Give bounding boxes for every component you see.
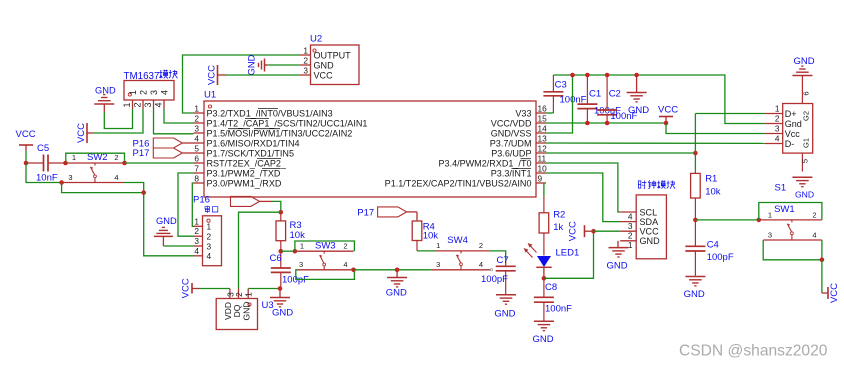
svg-text:DQ: DQ [232, 304, 242, 317]
svg-text:12: 12 [538, 144, 548, 154]
svg-text:C7: C7 [497, 255, 509, 266]
module TM1637 display connector [122, 70, 178, 109]
wire GND to serial pin3 [163, 245, 193, 247]
svg-text:3: 3 [68, 173, 72, 182]
svg-text:GND: GND [242, 302, 252, 321]
junction C2 bottom [605, 121, 610, 126]
ground on rail [627, 75, 650, 116]
wire U1 pin9 to R2 [543, 183, 545, 196]
svg-text:3: 3 [207, 241, 212, 251]
svg-text:1: 1 [300, 241, 304, 250]
ground below C8 [533, 321, 554, 345]
junction R1 bottom [693, 218, 698, 223]
svg-text:8: 8 [194, 174, 199, 184]
switch SW4 [432, 235, 493, 271]
svg-text:P3.4/PWM2/RXD1_/T0: P3.4/PWM2/RXD1_/T0 [438, 158, 531, 168]
wire VCC to U3 VDD [199, 288, 230, 290]
svg-text:VCC: VCC [568, 221, 579, 241]
svg-text:100nF: 100nF [545, 303, 572, 314]
svg-text:OUTPUT: OUTPUT [314, 50, 352, 60]
junction at SW2 pin1 [63, 161, 68, 166]
power VCC near U2 (rotated) [207, 65, 227, 85]
net flag P17 (lower) [357, 207, 417, 218]
net flag P17 (upper) [133, 148, 194, 159]
svg-text:4: 4 [628, 211, 633, 221]
svg-text:1: 1 [244, 292, 254, 297]
svg-text:2: 2 [775, 114, 780, 124]
svg-text:2: 2 [114, 153, 118, 162]
svg-text:1: 1 [207, 222, 212, 232]
svg-text:P16: P16 [193, 195, 210, 206]
junction LED cathode [542, 276, 547, 281]
svg-text:2: 2 [628, 231, 633, 241]
wire U1 pin8 to serial pin1 [192, 183, 193, 226]
capacitor C2 [597, 75, 637, 123]
junction VCC pin15 [664, 121, 669, 126]
svg-text:1: 1 [303, 46, 308, 56]
net flag P16 (upper) [133, 138, 194, 150]
svg-text:4: 4 [812, 230, 816, 239]
power VCC top-left [16, 129, 36, 151]
svg-text:2: 2 [132, 102, 142, 107]
svg-text:2: 2 [207, 232, 212, 242]
power VCC mid (rotated) [568, 221, 594, 241]
wire P16 node to U3 DQ [239, 212, 281, 288]
resistor R1 10k [691, 171, 721, 220]
svg-text:C6: C6 [270, 253, 282, 264]
junction SW2 bottom net [141, 190, 146, 195]
svg-text:1k: 1k [553, 222, 563, 233]
svg-text:P17: P17 [357, 207, 374, 218]
svg-text:4: 4 [207, 251, 212, 261]
svg-text:GND: GND [156, 216, 177, 226]
ground below C7 [494, 295, 516, 320]
junction UDP/D+/R1 [693, 151, 698, 156]
wire U1 pin11 to clock SCL [546, 163, 620, 212]
connector serial port (chuankou) [194, 206, 222, 266]
svg-text:3: 3 [628, 221, 633, 231]
svg-text:10: 10 [538, 164, 548, 174]
wire SW1 to VCC [821, 260, 823, 293]
junction P16/R3 node [279, 210, 284, 215]
svg-text:2: 2 [479, 241, 483, 250]
svg-text:3: 3 [303, 66, 308, 76]
svg-text:2: 2 [138, 90, 148, 95]
power VCC bottom-right (rotated) [822, 283, 840, 303]
net flag P16 (lower) [193, 195, 272, 207]
wire U1 GND/VSS pin14 to rail [546, 75, 573, 133]
capacitor C5 [26, 143, 66, 184]
svg-text:1: 1 [122, 102, 132, 107]
junction at SW2 pin3 [59, 180, 64, 185]
junction at C5 left [24, 161, 29, 166]
svg-text:4: 4 [153, 102, 163, 107]
capacitor C8 [534, 278, 572, 320]
svg-text:GND: GND [533, 334, 554, 345]
svg-text:TM1637: TM1637 [124, 71, 160, 82]
wire SW3 pin4 to GND junction [354, 269, 432, 271]
svg-text:3: 3 [143, 102, 153, 107]
svg-text:2: 2 [343, 241, 347, 250]
svg-text:13: 13 [538, 134, 548, 144]
svg-text:5: 5 [801, 159, 810, 163]
svg-text:P3.2/TXD1_/INT0/VBUS1/AIN3: P3.2/TXD1_/INT0/VBUS1/AIN3 [207, 108, 333, 118]
svg-text:GND: GND [607, 261, 628, 272]
svg-text:VCC: VCC [16, 129, 36, 140]
svg-text:SW4: SW4 [447, 235, 468, 246]
wire SW4 pin2 to C7 [490, 251, 506, 262]
switch SW2 [62, 152, 125, 183]
capacitor C6 [270, 251, 310, 288]
wire LED cathode node [543, 267, 545, 278]
svg-text:GND: GND [494, 309, 515, 320]
svg-text:4: 4 [479, 260, 483, 269]
svg-text:SW3: SW3 [315, 240, 336, 251]
connector U2 (OUTPUT/GND/VCC) [300, 34, 359, 85]
svg-text:P1.4/T2_/CAP1_/SCS/TIN2/UCC1/A: P1.4/T2_/CAP1_/SCS/TIN2/UCC1/AIN1 [207, 118, 368, 128]
svg-text:1: 1 [436, 241, 440, 250]
svg-text:10k: 10k [423, 230, 439, 241]
svg-text:3: 3 [775, 124, 780, 134]
ground USB bottom [792, 177, 814, 199]
capacitor C3 [543, 75, 586, 113]
svg-text:4: 4 [194, 246, 199, 256]
wire P17 to R4 [416, 212, 418, 221]
wire SW2 net to serial port pin4 [144, 193, 194, 256]
wire VCC node down to SW2 pin3 [26, 163, 62, 183]
wire TM1637 pin3 to U1 pin3 [154, 109, 194, 134]
svg-text:3: 3 [149, 90, 159, 95]
svg-text:CSDN @shansz2020: CSDN @shansz2020 [679, 343, 828, 360]
wire SW2 pin2 to U1 RST pin6 [125, 162, 194, 164]
wire SW1 bypass top [759, 203, 822, 220]
svg-text:C8: C8 [545, 282, 557, 293]
svg-text:VCC: VCC [640, 227, 660, 237]
svg-text:G2: G2 [802, 111, 811, 121]
wire TM1637 pin4 to U1 pin2 [164, 109, 194, 123]
svg-text:11: 11 [538, 154, 547, 164]
junction R3 bottom [279, 249, 284, 254]
svg-text:GND: GND [247, 54, 257, 75]
svg-text:GND: GND [795, 190, 814, 200]
svg-text:S1: S1 [775, 183, 787, 194]
resistor R3 10k [276, 212, 305, 251]
wire VCC to C5 node [25, 151, 27, 163]
svg-text:V33: V33 [515, 108, 531, 118]
ground serial port (flipped 4-bar) [154, 216, 177, 246]
svg-text:Gnd: Gnd [785, 119, 802, 129]
svg-text:3: 3 [194, 124, 199, 134]
svg-text:RST/T2EX_/CAP2_: RST/T2EX_/CAP2_ [207, 158, 287, 168]
svg-text:R3: R3 [290, 220, 302, 231]
svg-text:2: 2 [303, 56, 308, 66]
svg-text:C1: C1 [589, 89, 601, 100]
wire C3 to U1 V33 pin16 [546, 112, 553, 114]
svg-text:4: 4 [343, 260, 347, 269]
svg-text:2: 2 [194, 226, 199, 236]
capacitor C7 [481, 255, 516, 294]
power VCC mid-top [658, 105, 678, 124]
svg-text:1: 1 [194, 104, 199, 114]
wire U2 pin3 to VCC [226, 74, 300, 76]
switch SW3 [295, 240, 354, 269]
svg-text:100pF: 100pF [707, 252, 734, 263]
op-amp U1 microcontroller CH55x 16-pin [194, 90, 548, 198]
wire U2 pin2 to GND [267, 64, 300, 66]
svg-text:VCC/VDD: VCC/VDD [491, 118, 532, 128]
svg-text:14: 14 [538, 124, 548, 134]
wire LED node to VCC branch [544, 231, 594, 278]
svg-text:GND: GND [272, 308, 293, 319]
svg-text:GND: GND [794, 56, 815, 67]
wire USB D+ branch [695, 113, 764, 115]
svg-text:G1: G1 [802, 138, 811, 148]
wire R1 node to SW1 pin1 [695, 219, 758, 221]
junction SW3 pin4 [351, 268, 356, 273]
svg-text:4: 4 [775, 134, 780, 144]
ground TM1637 (flipped) [94, 86, 116, 113]
junction at SW2 pin2 [122, 161, 127, 166]
power VCC TM1637 (rotated) [76, 123, 94, 143]
svg-text:SW1: SW1 [774, 204, 795, 215]
power VCC near U3 (rotated) [181, 278, 200, 298]
wire SW2 pin3 bypass bottom [62, 183, 144, 193]
junction GND mid-bottom [395, 268, 400, 273]
junction SW1 pin1 [757, 218, 762, 223]
svg-text:VCC: VCC [207, 65, 218, 85]
svg-text:1: 1 [775, 104, 780, 114]
svg-text:3: 3 [768, 230, 772, 239]
wire GND top rail [553, 75, 764, 124]
watermark [679, 343, 828, 360]
svg-text:LED1: LED1 [556, 247, 580, 258]
junction VCC clock node [591, 229, 596, 234]
svg-text:4: 4 [114, 173, 118, 182]
svg-text:SCL: SCL [640, 207, 658, 217]
connector USB (D+/Gnd/Vcc/D-) [765, 104, 813, 154]
svg-text:D-: D- [785, 139, 795, 149]
svg-text:2: 2 [812, 210, 816, 219]
svg-text:VCC: VCC [76, 123, 87, 143]
svg-text:10k: 10k [705, 186, 721, 197]
svg-text:P3.3/INT1: P3.3/INT1 [491, 168, 532, 178]
svg-text:VCC: VCC [181, 278, 192, 298]
wire TM1637 pin1 to GND [104, 109, 132, 129]
switch SW1 [759, 204, 822, 240]
svg-text:P1.6/MISO/RXD1/TIN4: P1.6/MISO/RXD1/TIN4 [207, 138, 300, 148]
svg-text:16: 16 [538, 104, 548, 114]
junction rail C1 [585, 73, 590, 78]
svg-text:5: 5 [194, 144, 199, 154]
svg-text:3: 3 [194, 236, 199, 246]
wire U1 pin7 to serial pin2 [178, 173, 194, 236]
svg-text:P3.6/UDP: P3.6/UDP [491, 148, 531, 158]
svg-text:GND: GND [386, 288, 407, 299]
wire VCC node to clock VCC [594, 230, 621, 232]
ground clock module [607, 241, 629, 272]
svg-text:GND: GND [684, 289, 705, 300]
svg-text:P3.1/PWM2_/TXD: P3.1/PWM2_/TXD [207, 168, 281, 178]
capacitor C4 [685, 220, 733, 276]
svg-text:P1.7/SCK/TXD1/TIN5: P1.7/SCK/TXD1/TIN5 [207, 148, 294, 158]
svg-text:1: 1 [194, 216, 199, 226]
svg-text:P3.7/UDM: P3.7/UDM [490, 138, 532, 148]
svg-text:6: 6 [194, 154, 199, 164]
svg-text:1: 1 [628, 240, 633, 250]
wire P16 to R3 top [272, 201, 281, 212]
svg-text:GND: GND [628, 105, 649, 116]
svg-text:3: 3 [299, 260, 303, 269]
svg-text:2: 2 [234, 292, 244, 297]
wire SW1 bypass bottom [763, 240, 822, 260]
svg-text:VCC: VCC [829, 283, 840, 303]
svg-text:U2: U2 [310, 34, 322, 45]
svg-text:SDA: SDA [640, 217, 660, 227]
wire U3 GND to ground node [248, 288, 280, 290]
wire USB pin6 shield [802, 76, 811, 104]
svg-text:U1: U1 [204, 90, 216, 101]
wire R3 to SW3 pin1 [281, 250, 295, 252]
svg-text:D+: D+ [785, 109, 797, 119]
junction C1 bottom [585, 121, 590, 126]
resistor R4 10k [412, 221, 438, 251]
svg-text:R1: R1 [705, 173, 717, 184]
svg-text:100pF: 100pF [481, 274, 508, 285]
svg-text:7: 7 [194, 164, 199, 174]
svg-text:15: 15 [538, 114, 548, 124]
wire SW2 bypass top [66, 153, 125, 163]
svg-text:P17: P17 [133, 148, 150, 159]
wire VCC/VDD pin15 net [546, 122, 666, 124]
svg-text:1: 1 [128, 90, 138, 95]
wire VCC to USB Vcc [666, 123, 765, 134]
transistor U3 temperature sensor (VDD/DQ/GND) [216, 289, 273, 330]
module clock (shizhong) [620, 180, 675, 258]
wire TM1637 pin2 to VCC [94, 109, 143, 133]
wire SW2 pin4 link [124, 183, 144, 193]
svg-text:GND: GND [95, 86, 116, 96]
wire R4 to SW4 pin1 [417, 250, 436, 252]
junction U3 GND node [278, 286, 283, 291]
svg-text:C5: C5 [37, 143, 49, 154]
LED LED1 [524, 243, 580, 267]
svg-text:GND: GND [640, 236, 661, 246]
ground USB top (flipped) [792, 56, 814, 76]
svg-text:9: 9 [538, 174, 543, 184]
svg-text:4: 4 [159, 90, 169, 95]
svg-text:C2: C2 [609, 89, 621, 100]
svg-text:1: 1 [768, 210, 772, 219]
svg-text:P1.5/MOSI/PWM1/TIN3/UCC2/AIN2: P1.5/MOSI/PWM1/TIN3/UCC2/AIN2 [207, 128, 353, 138]
svg-text:4: 4 [194, 134, 199, 144]
wire SW3 bypass top [295, 241, 355, 251]
wire D+ vertical to R1 [694, 114, 696, 171]
junction SW3 pin1 [293, 249, 298, 254]
ground near U2 (rotated) [247, 54, 268, 75]
resistor R2 1k [539, 196, 565, 256]
svg-text:10k: 10k [290, 230, 306, 241]
svg-text:3: 3 [436, 260, 440, 269]
label S1 [775, 183, 787, 194]
wire SW3 bypass bottom [296, 270, 355, 280]
svg-text:6: 6 [802, 91, 811, 95]
ground mid-bottom [386, 270, 407, 299]
junction SW1 bottom [820, 258, 825, 263]
junction rail GND/VSS [570, 73, 575, 78]
svg-text:VCC: VCC [658, 105, 678, 116]
svg-text:1: 1 [72, 153, 76, 162]
svg-text:P1.1/T2EX/CAP2/TIN1/VBUS2/AIN0: P1.1/T2EX/CAP2/TIN1/VBUS2/AIN0 [385, 178, 532, 188]
svg-text:R2: R2 [553, 210, 565, 221]
svg-text:Vcc: Vcc [785, 129, 801, 139]
wire U1 pin10 to clock SDA [546, 173, 620, 222]
wire U2 pin1 to U1 pin1 [183, 55, 301, 113]
wire U1 pin12 UDP to D+ branch [546, 152, 695, 154]
junction rail C2 [605, 73, 610, 78]
wire USB pin5 shield [801, 153, 810, 171]
svg-text:P3.0/PWM1_/RXD: P3.0/PWM1_/RXD [207, 178, 282, 188]
ground below C4 [684, 277, 706, 300]
svg-text:2: 2 [194, 114, 199, 124]
capacitor C1 [577, 75, 621, 123]
svg-text:GND: GND [314, 60, 335, 70]
wire U1 pin13 UDM to USB D- [546, 142, 765, 144]
svg-text:GND/VSS: GND/VSS [491, 128, 532, 138]
svg-text:VCC: VCC [314, 70, 334, 80]
junction rail ground [634, 73, 639, 78]
ground below U3 node [270, 289, 293, 319]
svg-text:C4: C4 [707, 240, 719, 251]
svg-text:C3: C3 [555, 80, 567, 91]
